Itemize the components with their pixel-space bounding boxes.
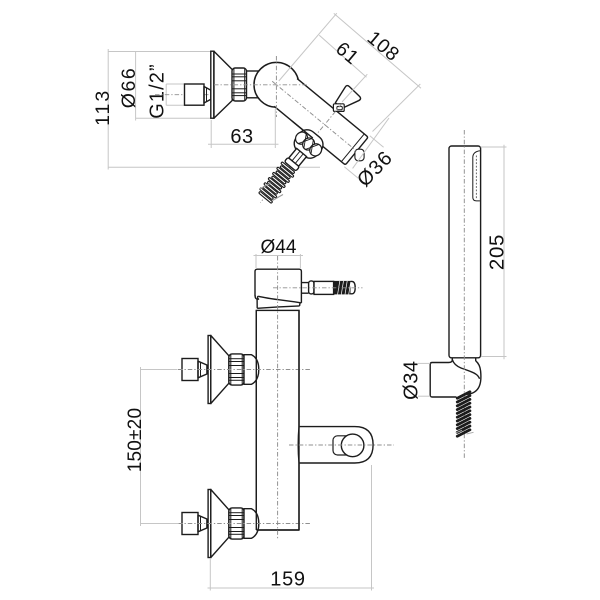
svg-text:113: 113 [92,89,114,126]
svg-text:Ø44: Ø44 [261,237,297,258]
body right edge upper [298,310,300,426]
holder front face bulge [464,361,481,395]
hose / diverter cross axis centerline [260,104,341,203]
upper escutcheon face [208,336,211,404]
upper wall union square fitting [182,359,198,381]
nozzle dots [475,156,477,199]
svg-text:150±20: 150±20 [125,408,146,472]
hand shower hose corrugations [455,390,471,400]
svg-text:Ø34: Ø34 [401,361,423,400]
svg-text:205: 205 [485,234,508,270]
svg-text:159: 159 [270,569,305,591]
dimension 150+-20 line [140,367,142,526]
nut facet ellipses [293,130,310,147]
ball joint sphere [254,62,299,107]
body right edge at outlet (bowed) [297,427,300,463]
body bottom edge [256,529,299,531]
shower holder block [430,359,456,397]
body right edge lower [298,463,300,530]
handle neck [301,283,308,294]
main horizontal centerline [214,84,307,86]
lower knurled nut [229,508,244,539]
collar cylinder [247,70,259,72]
hand shower centerline [463,130,465,460]
escutcheon cone [214,51,232,118]
dimension 205 line [503,145,505,359]
dimension O44 extension lines [255,254,257,268]
dimension O36 extension lines [370,136,384,148]
upper inlet boss [244,355,259,385]
outlet nipple cylinder [333,436,353,455]
lower escutcheon cone [211,490,229,558]
dimension O66 extension bottom [136,117,211,119]
knurled connection nut [232,68,247,101]
top cap [255,269,301,303]
cap skirt bottom [257,306,299,308]
hose connection nut [290,126,327,162]
handle black grip [334,281,351,295]
grip white stripes [338,281,351,295]
cap bottom curl [255,295,258,299]
extension line at body end [373,84,421,132]
dimension 108 line [334,13,421,88]
upper escutcheon cone [211,336,229,404]
svg-text:G1/2”: G1/2” [147,63,169,119]
dimension O36 line [353,118,389,168]
body axis centerline [272,81,356,151]
spiral hose corrugations [281,162,295,174]
body left edge [255,310,257,530]
dimension 113 extension line bottom [108,166,320,168]
lower escutcheon face [208,490,211,558]
lower centerline [178,523,311,525]
G1/2 thread reference bracket [166,83,184,85]
dimension 113 line [107,49,109,170]
lower inlet boss [244,509,259,539]
extension line at sphere center [279,13,337,81]
hose break ticks [260,183,272,189]
diverter knob [333,85,362,114]
svg-text:63: 63 [230,126,253,148]
cap skirt sides [257,299,300,308]
dimension 113 extension line top [108,51,211,53]
dimension 205 extension lines [481,146,507,148]
dimension 159 line [208,587,375,589]
extension line at diverter axis [342,74,367,102]
mixer body tube [274,79,368,165]
dimension 63 extension lines [210,120,212,148]
outlet centerline [289,444,394,446]
wall union square fitting [185,84,205,105]
dimension O66 line [135,52,137,121]
mixer body (front view) [256,310,299,530]
handle ring [309,281,314,294]
cap bottom edge [258,296,301,303]
sphere vertical centerline [275,56,277,117]
shower hose outlet tab [300,427,374,463]
upper knurled nut [229,354,244,385]
wand neck [451,358,453,360]
escutcheon flange face [211,51,214,118]
body lower edge over nut [292,121,313,138]
dimension 150+-20 extension lines [141,369,178,371]
hose hex shaft [289,148,307,166]
dimension 61 line [319,35,366,77]
wall union centerline [155,94,213,96]
upper cone seat [198,361,207,378]
handle end cap [351,281,356,293]
hand shower wand [449,146,481,358]
hose collar [284,157,299,171]
holder cup lip [452,360,479,379]
lower wall union square fitting [182,513,198,535]
wall union cone seat [204,87,211,104]
handle centerline [273,287,363,289]
hose break ticks bottom [456,430,462,432]
diverter knob collar [333,104,344,112]
body end joint line [341,134,364,162]
dimension 159 extension lines [209,558,211,591]
spout outlet nub on end face [355,149,364,161]
handle cylinder [314,281,334,294]
dimension O44 line [254,255,304,257]
dimension O34 extension lines [418,362,430,364]
upper centerline [178,369,311,371]
lower cone seat [198,515,207,532]
dimension 63 line [208,143,279,145]
svg-text:Ø66: Ø66 [118,67,140,108]
outlet nipple face circle [341,434,364,457]
body vertical centerline [277,256,279,540]
spray strip [473,151,480,201]
